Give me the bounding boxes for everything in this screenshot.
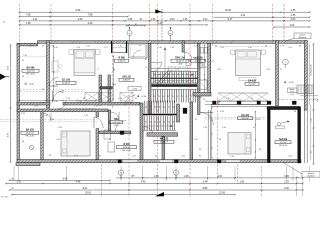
stair break line — [157, 70, 169, 85]
right facade line — [308, 44, 310, 105]
svg-text:2.03: 2.03 — [170, 18, 175, 21]
svg-text:4.36: 4.36 — [222, 127, 226, 129]
lower stair rail — [143, 114, 177, 116]
svg-text:62: 62 — [219, 139, 221, 141]
svg-text:20.4 m²: 20.4 m² — [249, 83, 256, 86]
circle symbol bottom 2 — [173, 170, 178, 175]
svg-text:2.36: 2.36 — [128, 18, 133, 21]
svg-text:94: 94 — [259, 149, 261, 151]
stair landing lines — [151, 82, 198, 84]
entry vestibule — [129, 43, 148, 58]
svg-text:14.32 m²: 14.32 m² — [26, 70, 34, 73]
column b2 — [175, 160, 179, 163]
wall H2 — [99, 131, 131, 134]
svg-text:1.45: 1.45 — [183, 18, 188, 21]
door arc stair top — [152, 61, 162, 63]
lower stair flight D2 — [145, 116, 175, 131]
stair upper landing line — [151, 67, 198, 69]
svg-text:1.36: 1.36 — [151, 18, 156, 21]
bath south wall — [193, 93, 211, 97]
outer bottom wall — [17, 160, 301, 163]
stair walk line upper — [155, 74, 194, 76]
small label right edge — [288, 88, 298, 93]
door arc H2 — [115, 121, 126, 131]
svg-text:4.41: 4.41 — [241, 14, 246, 17]
svg-text:97: 97 — [135, 24, 137, 26]
utility symbol circle 1 — [127, 31, 132, 36]
lower stair bottom — [143, 129, 177, 131]
wall V4 bath — [182, 41, 184, 52]
label mid lower — [154, 139, 174, 144]
svg-text:15.32 m²: 15.32 m² — [26, 132, 34, 135]
svg-text:5.46: 5.46 — [63, 177, 68, 180]
svg-text:12.06: 12.06 — [219, 192, 226, 195]
leader label bottom right — [302, 172, 320, 178]
svg-text:36: 36 — [42, 89, 44, 91]
column g4 — [267, 101, 271, 105]
elevation right room — [284, 81, 286, 83]
wall V2b — [108, 75, 111, 105]
gallery X railing band — [218, 92, 268, 94]
svg-text:7.48: 7.48 — [26, 22, 31, 25]
svg-text:95: 95 — [204, 79, 206, 81]
wall V7 — [41, 112, 43, 160]
wall V1 — [47, 41, 50, 108]
svg-text:9.61: 9.61 — [83, 187, 88, 190]
column b1 — [118, 160, 122, 163]
svg-text:21.96 m²: 21.96 m² — [160, 141, 168, 144]
red axis line x=212.5 — [212, 4, 214, 46]
svg-text:4.48: 4.48 — [58, 127, 62, 129]
svg-text:1.45: 1.45 — [194, 139, 198, 141]
small fixture b — [108, 142, 115, 152]
label SZ master — [56, 80, 76, 85]
svg-text:6.96 m²: 6.96 m² — [123, 79, 130, 82]
wall under stair — [147, 133, 178, 136]
bottom wall opening 2 — [160, 160, 173, 162]
svg-text:2.26: 2.26 — [284, 181, 289, 184]
svg-text:1.26: 1.26 — [181, 156, 185, 158]
bottom dim line B4 — [10, 189, 303, 191]
svg-text:1.36: 1.36 — [84, 115, 88, 117]
outer right wall upper — [304, 41, 307, 110]
wall V9 — [108, 110, 111, 131]
ext line bottom right 1 — [296, 176, 298, 196]
red dashed line right y=160.4 — [280, 159, 297, 161]
pump symbol technik — [277, 122, 280, 125]
red axis line x=51 — [50, 4, 52, 44]
column g1 — [213, 101, 217, 105]
door arc master to corridor — [53, 91, 65, 103]
label technik — [275, 139, 291, 147]
svg-text:36: 36 — [42, 46, 44, 48]
svg-text:86: 86 — [109, 139, 111, 141]
svg-text:7.08: 7.08 — [26, 13, 31, 16]
wall V2 — [99, 75, 102, 105]
red axis line x=217.5 — [217, 98, 219, 180]
red axis line x=284 — [283, 4, 285, 41]
dashed overhang lines mid — [66, 107, 96, 109]
svg-text:2.21: 2.21 — [86, 46, 90, 48]
bottom wall opening 1 — [123, 160, 138, 162]
svg-text:94: 94 — [22, 141, 24, 143]
door arc V8 — [94, 117, 103, 128]
svg-text:36: 36 — [203, 99, 205, 101]
stair walk line landing vertical — [164, 48, 166, 76]
wall V8 upper — [96, 112, 99, 117]
stair dots flight A — [154, 74, 155, 75]
svg-text:86: 86 — [155, 156, 157, 158]
top dimension line L2 — [20, 15, 129, 17]
label right room circle — [283, 59, 289, 65]
svg-text:94: 94 — [265, 46, 267, 48]
svg-text:4.36: 4.36 — [8, 66, 10, 70]
wall V10 — [140, 103, 143, 160]
nightstand A1 — [69, 50, 74, 55]
right margin dim line — [313, 44, 315, 164]
red axis line x=261.5 — [261, 166, 263, 197]
stair walk line B — [155, 80, 194, 82]
dashed overhang lines right — [205, 116, 266, 118]
svg-text:1.26: 1.26 — [112, 84, 116, 86]
svg-text:2.35: 2.35 — [291, 9, 296, 12]
svg-text:FB +3.30: FB +3.30 — [26, 73, 35, 75]
lower stair dots C2 — [145, 106, 146, 107]
svg-text:+3.30: +3.30 — [28, 84, 34, 86]
door arc V10 — [143, 127, 154, 138]
door arc bath — [184, 52, 192, 60]
svg-text:2.93: 2.93 — [66, 98, 70, 100]
svg-text:2.35: 2.35 — [291, 14, 296, 17]
svg-text:11: 11 — [175, 172, 177, 174]
section marker left — [0, 74, 6, 81]
svg-text:3.46: 3.46 — [203, 181, 208, 184]
svg-text:1.36: 1.36 — [203, 127, 207, 129]
svg-text:1.54: 1.54 — [194, 46, 198, 48]
svg-text:97: 97 — [139, 46, 141, 48]
stair dots flight B — [154, 80, 155, 81]
svg-text:1.26: 1.26 — [21, 113, 25, 115]
svg-text:1.35: 1.35 — [154, 175, 159, 178]
label AR room — [119, 76, 134, 82]
stair right wall — [198, 43, 201, 114]
wall V11b — [190, 102, 193, 160]
svg-text:FB +0.20: FB +0.20 — [122, 150, 131, 152]
svg-text:86: 86 — [83, 98, 85, 100]
svg-text:2.04: 2.04 — [290, 24, 295, 27]
stair left wall — [149, 43, 152, 114]
svg-text:+3.30: +3.30 — [141, 96, 146, 98]
svg-text:62: 62 — [22, 60, 24, 62]
red axis line x=272.5 — [272, 4, 274, 44]
svg-text:94: 94 — [113, 69, 115, 71]
stair label TRH — [171, 57, 189, 66]
upper band south wall — [17, 102, 50, 105]
column g3 — [257, 101, 261, 105]
svg-text:36: 36 — [3, 21, 5, 23]
svg-text:1.04: 1.04 — [203, 18, 208, 21]
outer top wall — [38, 41, 308, 44]
stair well guard bar — [152, 84, 198, 86]
bath fixtures — [201, 48, 204, 54]
svg-text:3.5: 3.5 — [311, 151, 313, 153]
entry door arc — [133, 50, 141, 58]
interior dim line x204 — [204, 45, 206, 92]
elevation mark upper left — [25, 82, 27, 84]
top dimension line L1 — [20, 11, 310, 13]
stair lower flight C — [153, 89, 195, 102]
lower stair dots D2 — [145, 121, 146, 122]
technik top wall — [267, 106, 300, 109]
svg-text:4.86: 4.86 — [220, 111, 224, 113]
red axis line x=112.5 — [112, 4, 114, 108]
svg-text:2.36: 2.36 — [220, 47, 224, 49]
top dimension line L4 — [20, 24, 208, 26]
nightstand A2 — [96, 50, 101, 55]
svg-text:FB -0.05: FB -0.05 — [279, 145, 288, 147]
svg-text:7.98: 7.98 — [88, 13, 93, 16]
foot bench E — [239, 78, 256, 81]
svg-text:4.45: 4.45 — [248, 47, 252, 49]
label BA-206 — [22, 67, 39, 76]
svg-text:2.40: 2.40 — [141, 181, 146, 184]
dim chain IF room — [113, 56, 115, 100]
label BA lower-left — [21, 129, 39, 138]
svg-text:1.21: 1.21 — [94, 106, 98, 108]
svg-text:1.01: 1.01 — [56, 139, 60, 141]
elevation marker corridor — [137, 95, 139, 97]
svg-text:9.47: 9.47 — [228, 18, 233, 21]
svg-text:1.94: 1.94 — [266, 69, 270, 71]
svg-text:10.96: 10.96 — [225, 9, 232, 12]
svg-text:97: 97 — [145, 67, 147, 69]
svg-text:1.26: 1.26 — [256, 119, 260, 121]
top dimension line L4b — [274, 26, 310, 28]
svg-text:62: 62 — [215, 46, 217, 48]
nightstand E1 — [231, 50, 235, 55]
nightstand E2 — [261, 50, 265, 55]
svg-text:2.11: 2.11 — [33, 18, 38, 21]
top niche closet — [113, 43, 126, 52]
door arc right of stair — [201, 112, 214, 125]
bottom dim line B5 — [12, 194, 235, 196]
svg-text:4.96 m²: 4.96 m² — [118, 60, 125, 63]
svg-text:3.06: 3.06 — [284, 187, 289, 190]
svg-text:2.40: 2.40 — [158, 22, 163, 25]
svg-text:2.48: 2.48 — [44, 115, 48, 117]
svg-text:M 1:100: M 1:100 — [1, 197, 9, 199]
red dashed line right y=99.5 — [278, 99, 318, 101]
curtain line right room — [215, 46, 272, 48]
red axis line x=19.5 — [19, 4, 21, 44]
interior dim chain x211.8 — [211, 104, 213, 158]
X panel row 1 — [85, 93, 99, 102]
shaft lintel — [100, 87, 113, 90]
svg-text:20.4 m²: 20.4 m² — [242, 117, 249, 120]
lower stair flight C2 — [145, 101, 175, 114]
svg-text:2.82: 2.82 — [240, 181, 245, 184]
svg-text:4.36: 4.36 — [317, 98, 319, 101]
svg-text:2.31: 2.31 — [17, 181, 22, 184]
svg-text:12.4 m²: 12.4 m² — [280, 141, 287, 144]
technik left wall — [267, 109, 270, 163]
label TRH lower — [110, 119, 123, 127]
svg-text:1.35: 1.35 — [203, 67, 207, 69]
bed room E (right) — [236, 50, 261, 76]
circle symbol bottom 1 — [118, 170, 123, 175]
corridor dim chain — [20, 99, 97, 101]
door arc V9 — [111, 112, 119, 120]
red axis line x=157.5 — [157, 4, 159, 197]
ext line bottom right 2 — [302, 176, 304, 196]
svg-text:Balkon: Balkon — [290, 89, 295, 91]
column g2 — [237, 101, 241, 105]
svg-text:1.26: 1.26 — [118, 98, 122, 100]
dim chain master x53.5 — [53, 46, 55, 100]
bed lower-left — [61, 131, 90, 156]
utility symbol circle 2 — [168, 31, 173, 36]
svg-text:95: 95 — [195, 119, 197, 121]
dim chain x255 — [254, 111, 256, 159]
svg-text:4.99: 4.99 — [8, 133, 10, 137]
bed lower-right — [228, 133, 251, 154]
label GA lower-right — [238, 114, 253, 120]
door arc room BA-206 — [50, 78, 59, 87]
exterior stair east — [297, 85, 313, 94]
corridor arc 2 — [58, 101, 66, 109]
bottom dim line B3 — [6, 183, 303, 185]
svg-text:1.36: 1.36 — [170, 47, 174, 49]
svg-text:10 Stg 17.5/28: 10 Stg 17.5/28 — [310, 64, 313, 75]
toilet upper — [198, 63, 203, 69]
svg-text:19.44 m²: 19.44 m² — [176, 60, 184, 63]
bench shelf landing — [168, 67, 176, 71]
svg-text:94: 94 — [22, 76, 24, 78]
lower-left top wall — [17, 109, 108, 112]
svg-text:4.61: 4.61 — [218, 175, 223, 178]
svg-text:2.40: 2.40 — [158, 47, 162, 49]
stair mid rail — [151, 77, 198, 79]
beam line right ext — [300, 95, 318, 97]
staircase upper flight A — [151, 72, 198, 84]
svg-text:8.86: 8.86 — [203, 187, 208, 190]
svg-text:21.96 m²: 21.96 m² — [62, 82, 70, 85]
label GA-105 — [245, 80, 259, 86]
north arrow bottom — [155, 192, 164, 196]
black block H2 — [120, 131, 124, 135]
svg-text:36: 36 — [294, 111, 296, 113]
leader label top right — [294, 33, 311, 39]
svg-text:10: 10 — [120, 172, 122, 174]
small boxed elev — [128, 86, 141, 90]
dashed line BA-206 — [20, 56, 47, 58]
svg-text:2.93: 2.93 — [74, 156, 78, 158]
svg-text:36: 36 — [49, 155, 51, 157]
column g5 — [292, 101, 296, 105]
svg-text:+0.20: +0.20 — [288, 82, 294, 84]
svg-text:4.45: 4.45 — [54, 47, 58, 49]
wall V5 — [208, 43, 211, 94]
extension lines bottom — [13, 166, 15, 181]
dashed gallery edge upper — [20, 89, 85, 91]
svg-text:1.26: 1.26 — [118, 46, 122, 48]
svg-text:2.36: 2.36 — [168, 115, 172, 117]
outer top wall left step — [17, 43, 38, 46]
svg-text:62: 62 — [145, 59, 147, 61]
svg-text:1.01: 1.01 — [132, 156, 136, 158]
svg-text:2.48: 2.48 — [34, 106, 38, 108]
svg-text:+3.30: +3.30 — [132, 88, 137, 90]
label IF 096 — [115, 58, 129, 63]
red axis line x=129 — [128, 95, 130, 197]
small fixture a — [104, 130, 111, 139]
top dimension line L3 — [20, 20, 310, 22]
X panel row 3 — [120, 93, 133, 102]
svg-text:30: 30 — [11, 188, 13, 190]
svg-text:30: 30 — [11, 178, 13, 180]
outer left wall — [17, 43, 20, 161]
svg-text:4.36: 4.36 — [226, 98, 230, 100]
svg-text:1.94: 1.94 — [198, 97, 202, 99]
svg-text:2.48: 2.48 — [78, 101, 82, 103]
svg-text:6.96: 6.96 — [76, 9, 81, 12]
outer right wall lower thin — [303, 110, 305, 163]
red axis line x=190 — [189, 4, 191, 197]
svg-text:4.41 m²: 4.41 m² — [195, 60, 202, 63]
stair tread number dots — [154, 96, 155, 97]
svg-text:2.04: 2.04 — [288, 47, 292, 49]
svg-text:1.48: 1.48 — [184, 175, 189, 178]
label bath — [191, 58, 206, 63]
technik right wall — [298, 107, 301, 163]
svg-text:3.06: 3.06 — [284, 175, 289, 178]
shower — [198, 80, 207, 89]
svg-text:2.04: 2.04 — [291, 18, 296, 21]
X panel row 2 — [101, 93, 113, 102]
svg-text:1.26: 1.26 — [28, 46, 32, 48]
svg-text:1.94: 1.94 — [288, 156, 292, 158]
svg-text:überdacht: überdacht — [299, 36, 307, 39]
circle symbol lower-left — [29, 145, 33, 149]
bottom dim line B2 — [10, 179, 110, 181]
svg-text:4.43: 4.43 — [88, 22, 93, 25]
rooms top edge right — [211, 104, 268, 106]
door arc V7 top — [43, 113, 51, 121]
bed master bedroom — [74, 50, 95, 76]
gallery beam — [205, 100, 268, 102]
svg-text:1.04: 1.04 — [290, 94, 294, 96]
svg-text:62: 62 — [280, 69, 282, 71]
wall stub right of stair — [177, 104, 180, 122]
wall V11 — [162, 137, 165, 160]
svg-text:2.96: 2.96 — [76, 47, 80, 49]
dashed overhang lines left — [0, 119, 97, 121]
wall V6 — [276, 41, 279, 106]
svg-text:+3.30: +3.30 — [177, 63, 183, 65]
wall V8 lower — [96, 129, 99, 160]
red axis line x=149.5 — [149, 4, 151, 90]
top dimension line L2b — [214, 16, 310, 18]
svg-text:4.36: 4.36 — [54, 101, 58, 103]
corridor arc 1 — [125, 96, 135, 106]
svg-text:1.01: 1.01 — [104, 47, 108, 49]
label IF lower — [117, 143, 137, 152]
bottom terrace step left — [16, 163, 40, 166]
svg-text:1.79: 1.79 — [280, 46, 284, 48]
bidet — [186, 60, 191, 66]
svg-text:2.04: 2.04 — [210, 61, 214, 63]
left margin dim line — [10, 45, 12, 162]
